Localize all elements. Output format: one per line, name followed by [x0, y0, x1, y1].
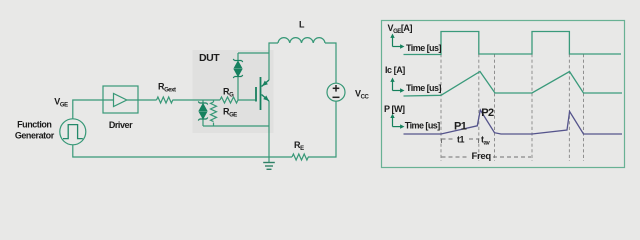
- driver U1 box: [103, 86, 138, 113]
- svg-text:Function: Function: [17, 119, 51, 129]
- svg-text:P [W]: P [W]: [384, 104, 405, 114]
- zener D4 triangle (pointing down): [199, 112, 206, 119]
- transistor Q1 (IGBT, DUT): [256, 77, 261, 110]
- zener D2 triangle (pointing down): [234, 70, 241, 77]
- Q1 collector arrow: [262, 81, 268, 86]
- inductor L: [278, 38, 336, 84]
- svg-text:t1: t1: [457, 135, 465, 145]
- voltage source VCC symbol: [327, 83, 345, 101]
- svg-text:Driver: Driver: [109, 120, 133, 130]
- t1 measurement bracket: [442, 139, 479, 143]
- wire: R_E to VCC source bottom: [308, 101, 336, 157]
- svg-text:Generator: Generator: [15, 130, 55, 140]
- resistor R_E: [292, 154, 308, 160]
- Q1 collector diagonal: [262, 80, 270, 87]
- svg-text:DUT: DUT: [199, 52, 220, 64]
- svg-text:Time [us]: Time [us]: [405, 121, 440, 131]
- zener D1 triangle (pointing up): [234, 62, 241, 69]
- resistor R_Gext: [157, 97, 173, 103]
- svg-text:Ic [A]: Ic [A]: [385, 65, 405, 75]
- svg-text:Time [us]: Time [us]: [406, 43, 441, 53]
- wire: collector-gate clamp branch (zeners D1/D2): [238, 52, 269, 54]
- waveform trace V_GE: [404, 32, 622, 55]
- resistor R_GE (vertical): [213, 100, 215, 102]
- ground symbol bars: [263, 163, 275, 170]
- DUT shaded box: [193, 50, 274, 133]
- zener D2 cathode bar (bottom, hooks): [233, 75, 243, 78]
- Freq measurement bracket: [442, 156, 532, 158]
- svg-text:P1: P1: [454, 121, 467, 133]
- svg-text:Time [us]: Time [us]: [406, 83, 441, 93]
- wire: R_Gext to R_G (node gate-drive rail): [173, 99, 221, 101]
- zener D1 cathode bar (top, hooks): [233, 59, 243, 62]
- labels (left schematic): [15, 20, 370, 153]
- wire: zener branch D3/D4 connecting stubs: [202, 100, 204, 103]
- zener D3 cathode bar (top, hooks): [198, 102, 208, 105]
- Q1 emitter arrow: [263, 95, 269, 100]
- Vge axis: [392, 37, 394, 47]
- function generator source symbol: [60, 119, 86, 145]
- wire: R_GE bottom rail to emitter node: [203, 125, 269, 127]
- waveform trace P (power): [404, 110, 623, 134]
- wire: collector of Q1 up to inductor L left terminal: [269, 43, 278, 80]
- wire: function generator bottom to ground rail: [73, 145, 292, 157]
- axis icons: [390, 34, 404, 129]
- VCC polarity marks + / -: [333, 85, 340, 97]
- wire: emitter of Q1 down to ground rail: [268, 101, 270, 157]
- Q1 channel bar: [260, 77, 262, 110]
- zener D4 cathode bar (bottom, hooks): [198, 118, 208, 121]
- waveform trace Ic: [404, 72, 623, 97]
- dashed vertical markers: [441, 54, 584, 161]
- wire: driver out to gate rail: [138, 99, 157, 101]
- labels (right panel): [384, 23, 494, 162]
- Q1 gate bar: [255, 87, 257, 102]
- driver U1 amplifier triangle: [103, 99, 138, 101]
- pulse symbol inside function generator: [63, 125, 83, 139]
- resistor R_G: [220, 97, 238, 103]
- wire: R_G to gate of Q1: [238, 99, 255, 101]
- wire: function generator top to driver: [73, 100, 103, 119]
- zener D3 triangle (pointing up): [199, 104, 206, 111]
- P axis: [392, 117, 394, 127]
- svg-text:Freq: Freq: [472, 151, 492, 162]
- Q1 emitter diagonal: [262, 95, 270, 102]
- Ic axis: [392, 81, 394, 91]
- panel border: [382, 21, 625, 168]
- ground stem: [268, 157, 270, 163]
- svg-text:P2: P2: [481, 107, 494, 119]
- zener diodes D1 D2 (collector-gate clamp): [198, 59, 243, 121]
